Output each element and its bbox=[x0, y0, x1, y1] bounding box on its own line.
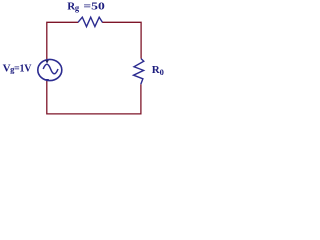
svg-text:=1V: =1V bbox=[14, 63, 32, 74]
minus mark at source bottom bbox=[45, 79, 49, 80]
wire right-bottom segment bbox=[47, 81, 141, 114]
plus/arrow mark at source top bbox=[45, 60, 49, 64]
resistor R0 bbox=[134, 59, 144, 85]
svg-text:=50: =50 bbox=[83, 0, 105, 12]
resistor Rg bbox=[78, 17, 102, 26]
AC source V1 circle bbox=[38, 59, 62, 80]
wire top-right segment bbox=[102, 22, 141, 58]
svg-text:g: g bbox=[75, 2, 80, 12]
sine wave inside source bbox=[43, 64, 58, 74]
wire top-left segment bbox=[47, 22, 78, 60]
svg-text:0: 0 bbox=[160, 67, 164, 77]
